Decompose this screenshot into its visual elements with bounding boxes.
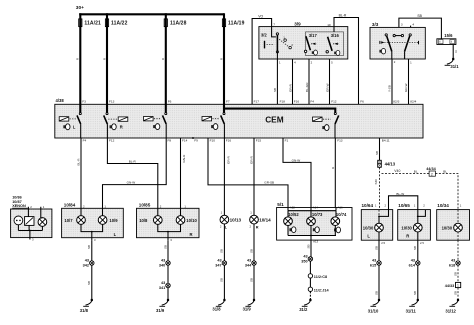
svg-text:3: 3 <box>401 23 403 27</box>
svg-text:10/74: 10/74 <box>336 212 347 217</box>
svg-text:Y-SB: Y-SB <box>387 85 391 92</box>
svg-text:30+: 30+ <box>76 5 84 11</box>
svg-text:1: 1 <box>457 284 459 288</box>
svg-text:SB: SB <box>417 14 422 18</box>
svg-text:CEM: CEM <box>265 114 284 124</box>
svg-text:F9: F9 <box>194 139 198 143</box>
svg-text:GR-R: GR-R <box>249 155 253 164</box>
svg-text:F6: F6 <box>360 100 364 104</box>
svg-text:V40: V40 <box>394 169 400 173</box>
svg-text:F18: F18 <box>280 100 286 104</box>
svg-text:F6: F6 <box>168 100 172 104</box>
svg-text:31/9: 31/9 <box>156 308 165 313</box>
svg-text:44/34: 44/34 <box>426 167 436 171</box>
svg-text:10/73: 10/73 <box>312 212 323 217</box>
svg-text:43: 43 <box>372 258 376 262</box>
svg-text:344: 344 <box>245 264 252 268</box>
svg-text:R: R <box>120 125 123 130</box>
svg-text:F16: F16 <box>226 139 232 143</box>
svg-text:SB: SB <box>453 272 457 276</box>
svg-text:F13: F13 <box>337 139 343 143</box>
svg-text:31/12: 31/12 <box>445 308 456 313</box>
svg-text:10/34: 10/34 <box>437 203 449 208</box>
svg-text:11A/19: 11A/19 <box>228 21 245 27</box>
svg-text:BL-W: BL-W <box>396 192 404 196</box>
svg-text:5/1: 5/1 <box>277 202 284 207</box>
svg-text:82/3: 82/3 <box>393 100 399 104</box>
svg-text:10/65: 10/65 <box>398 203 410 208</box>
svg-text:10/84: 10/84 <box>64 203 76 208</box>
svg-text:SB: SB <box>374 291 378 295</box>
svg-text:43: 43 <box>161 258 165 262</box>
svg-text:F17: F17 <box>254 100 260 104</box>
svg-text:2: 2 <box>431 172 433 176</box>
svg-text:43: 43 <box>411 258 415 262</box>
svg-text:31/1: 31/1 <box>450 64 459 69</box>
svg-text:SB: SB <box>87 281 91 285</box>
svg-text:3/3: 3/3 <box>372 22 379 27</box>
svg-text:10: 10 <box>327 23 331 27</box>
svg-text:82/4: 82/4 <box>410 100 416 104</box>
svg-text:SB: SB <box>163 245 167 249</box>
svg-text:31/8: 31/8 <box>80 308 89 313</box>
svg-text:R: R <box>102 58 106 60</box>
svg-text:GR-SB: GR-SB <box>264 181 274 185</box>
svg-text:43: 43 <box>247 258 251 262</box>
svg-text:10/7: 10/7 <box>64 218 73 223</box>
svg-text:340: 340 <box>159 264 165 268</box>
svg-text:10/30: 10/30 <box>401 226 412 231</box>
svg-text:R: R <box>406 234 409 239</box>
svg-text:SB: SB <box>413 246 417 250</box>
svg-text:R: R <box>219 58 223 60</box>
svg-text:11A/21: 11A/21 <box>84 21 101 27</box>
svg-text:F13: F13 <box>109 100 115 104</box>
svg-text:31/10: 31/10 <box>368 308 379 313</box>
svg-text:F7: F7 <box>226 100 230 104</box>
svg-text:F8: F8 <box>168 139 172 143</box>
svg-text:44/33: 44/33 <box>445 284 455 288</box>
svg-text:L: L <box>367 234 370 239</box>
svg-text:BL-R: BL-R <box>339 14 347 18</box>
svg-text:XENON: XENON <box>12 204 26 208</box>
svg-text:GR-R: GR-R <box>226 155 230 164</box>
svg-text:SB: SB <box>273 88 277 92</box>
svg-text:614: 614 <box>409 264 416 268</box>
svg-text:10/9: 10/9 <box>109 218 118 223</box>
svg-text:F16: F16 <box>294 100 300 104</box>
svg-text:BL-R: BL-R <box>129 159 137 163</box>
svg-text:31/2: 31/2 <box>299 307 308 312</box>
svg-text:F14: F14 <box>182 139 188 143</box>
svg-text:L: L <box>114 232 117 237</box>
svg-text:2.5: 2.5 <box>420 241 424 245</box>
svg-text:347: 347 <box>215 264 221 268</box>
svg-text:SB: SB <box>249 278 253 282</box>
svg-text:SB: SB <box>249 249 253 253</box>
svg-text:F12: F12 <box>109 139 115 143</box>
svg-text:10/30: 10/30 <box>363 226 374 231</box>
svg-text:11/2:J14: 11/2:J14 <box>314 288 330 292</box>
svg-text:SB: SB <box>87 245 91 249</box>
svg-text:A14: A14 <box>313 206 318 210</box>
svg-text:F15: F15 <box>256 139 262 143</box>
svg-text:10/52: 10/52 <box>288 212 299 217</box>
svg-text:SB: SB <box>306 244 310 248</box>
svg-text:SB: SB <box>220 249 224 253</box>
svg-text:SB: SB <box>413 291 417 295</box>
svg-text:BL: BL <box>414 169 418 173</box>
svg-text:A22: A22 <box>290 206 295 210</box>
svg-text:341: 341 <box>159 286 165 290</box>
svg-text:GN-W: GN-W <box>292 158 301 162</box>
svg-text:4/38: 4/38 <box>56 98 65 103</box>
svg-text:43: 43 <box>303 254 307 258</box>
svg-text:R: R <box>76 58 80 60</box>
svg-text:11A/28: 11A/28 <box>170 21 187 27</box>
svg-text:3/2: 3/2 <box>261 33 267 38</box>
svg-text:43: 43 <box>85 258 89 262</box>
svg-text:11A/22: 11A/22 <box>111 21 128 27</box>
svg-text:31/11: 31/11 <box>406 308 417 313</box>
svg-text:44/13: 44/13 <box>385 162 396 167</box>
svg-text:10/30: 10/30 <box>442 226 453 231</box>
svg-text:3/9: 3/9 <box>294 22 301 27</box>
svg-text:43: 43 <box>217 258 221 262</box>
svg-text:10/8: 10/8 <box>139 218 148 223</box>
svg-text:3/16: 3/16 <box>331 33 340 38</box>
svg-text:A13: A13 <box>313 240 318 244</box>
svg-text:10/14: 10/14 <box>259 217 271 222</box>
svg-text:F4: F4 <box>310 100 314 104</box>
svg-text:SB: SB <box>374 246 378 250</box>
svg-text:F1: F1 <box>285 139 289 143</box>
svg-text:S40: S40 <box>374 179 378 185</box>
svg-text:L: L <box>73 125 76 130</box>
svg-text:10/85: 10/85 <box>139 203 151 208</box>
svg-text:R: R <box>190 232 193 237</box>
svg-text:B4:11: B4:11 <box>382 139 390 143</box>
svg-text:GN-W: GN-W <box>127 180 136 184</box>
svg-text:F3: F3 <box>82 100 86 104</box>
svg-text:F12: F12 <box>331 100 337 104</box>
svg-text:BL-GR: BL-GR <box>305 82 309 92</box>
svg-text:GR-W: GR-W <box>325 83 329 92</box>
svg-text:31/8: 31/8 <box>212 306 221 311</box>
svg-text:43: 43 <box>451 258 455 262</box>
svg-text:A16: A16 <box>338 206 343 210</box>
svg-text:43: 43 <box>161 281 165 285</box>
svg-text:618: 618 <box>449 264 455 268</box>
svg-text:615: 615 <box>370 264 376 268</box>
svg-text:10/64: 10/64 <box>362 203 374 208</box>
svg-text:VO: VO <box>258 15 263 19</box>
svg-text:350: 350 <box>301 260 307 264</box>
svg-text:15/6: 15/6 <box>444 33 453 38</box>
svg-text:BL-R: BL-R <box>76 158 80 166</box>
svg-text:7: 7 <box>273 23 275 27</box>
svg-text:R: R <box>161 58 165 60</box>
svg-text:10/10: 10/10 <box>186 218 197 223</box>
svg-text:GR-R: GR-R <box>288 83 292 92</box>
svg-text:31/9: 31/9 <box>243 306 252 311</box>
svg-text:BL: BL <box>443 169 447 173</box>
svg-text:4: 4 <box>412 22 414 26</box>
svg-text:342: 342 <box>83 264 89 268</box>
svg-text:F4: F4 <box>83 139 87 143</box>
svg-text:F10: F10 <box>210 139 216 143</box>
svg-text:R: R <box>256 225 259 229</box>
svg-text:SB: SB <box>375 151 379 155</box>
svg-text:GR-W: GR-W <box>404 83 408 92</box>
svg-text:10/13: 10/13 <box>230 217 242 222</box>
svg-text:2.5: 2.5 <box>381 241 385 245</box>
svg-text:11/2:C8: 11/2:C8 <box>314 275 327 279</box>
svg-text:3/17: 3/17 <box>309 33 318 38</box>
svg-text:SB: SB <box>453 291 457 295</box>
svg-text:GN-R: GN-R <box>182 154 186 163</box>
svg-text:SB: SB <box>220 278 224 282</box>
